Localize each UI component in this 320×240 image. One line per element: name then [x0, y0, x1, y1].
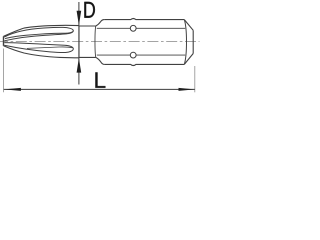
L arrow left [4, 88, 21, 91]
cone top outline [4, 25, 80, 36]
end face edge [192, 30, 194, 53]
left taper boundary curve [94, 26, 97, 57]
end chamfer top slant [184, 20, 193, 31]
upper flute lower edge [4, 31, 73, 41]
background [0, 0, 200, 95]
label D [84, 2, 95, 18]
hex upper face line [97, 27, 185, 29]
D arrow bottom [77, 58, 82, 73]
cone base edge [78, 26, 80, 58]
neck bottom edge [79, 56, 96, 58]
lower flute root line [27, 47, 73, 48]
upper flute wing [4, 27, 73, 38]
label L [95, 72, 105, 87]
end chamfer bottom slant [184, 54, 193, 65]
flare bottom [96, 57, 105, 64]
lower flute lower edge [4, 45, 65, 52]
bit tip blunt end [3, 36, 5, 46]
L dimension line [4, 88, 195, 90]
neck top edge [79, 25, 96, 27]
centerline axis [0, 41, 200, 43]
extension line left (L dimension) [3, 49, 5, 93]
D arrow top [77, 11, 82, 26]
cone bottom outline [4, 46, 80, 58]
detent circle top [130, 25, 136, 31]
extension line right (L dimension) [194, 66, 196, 92]
flare top [96, 20, 105, 26]
D dimension extension line [78, 2, 80, 85]
L arrow right [179, 88, 195, 91]
hex top edge [104, 19, 184, 20]
end chamfer boundary arc [184, 20, 186, 65]
hex lower face line [97, 54, 185, 56]
hex bottom edge [104, 64, 184, 65]
detent circle bottom [130, 52, 136, 58]
lower flute wing [4, 43, 73, 53]
